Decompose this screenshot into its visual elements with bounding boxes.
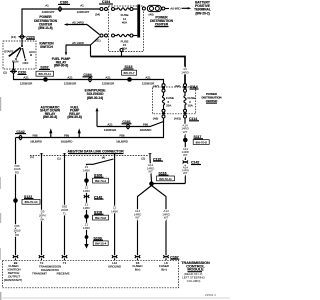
svg-text:MODULE: MODULE (187, 268, 204, 272)
svg-text:(8W-30-8): (8W-30-8) (43, 115, 57, 119)
svg-text:(2): (2) (141, 157, 145, 161)
svg-text:T1: T1 (63, 261, 67, 265)
svg-text:14BK: 14BK (83, 206, 90, 210)
svg-text:14BK: 14BK (83, 189, 90, 193)
svg-text:10A: 10A (188, 104, 193, 108)
svg-text:A5 14RD: A5 14RD (72, 41, 85, 45)
svg-text:(51): (51) (95, 39, 100, 43)
svg-text:WT: WT (164, 216, 169, 220)
svg-text:RECEIVE: RECEIVE (57, 272, 70, 276)
svg-text:(A2): (A2) (175, 84, 181, 88)
svg-text:(2): (2) (3, 70, 7, 74)
svg-text:(A61): (A61) (174, 117, 181, 121)
svg-text:40A: 40A (122, 20, 127, 24)
svg-text:8W-70-8: 8W-70-8 (196, 140, 207, 144)
svg-text:(4): (4) (102, 156, 106, 160)
svg-text:(8W-30-8): (8W-30-8) (54, 64, 68, 68)
svg-text:12RD/WT: 12RD/WT (77, 10, 90, 14)
svg-text:F86: F86 (119, 133, 124, 137)
svg-text:F86: F86 (143, 122, 148, 126)
svg-text:A21: A21 (107, 122, 113, 126)
svg-text:WT: WT (183, 153, 188, 157)
svg-text:(8W-30-14): (8W-30-14) (87, 96, 103, 100)
svg-text:F86: F86 (14, 224, 19, 228)
svg-text:WT: WT (148, 170, 153, 174)
svg-text:WT: WT (183, 130, 188, 134)
svg-text:(A6): (A6) (153, 117, 159, 121)
svg-text:WT: WT (183, 171, 188, 175)
svg-text:A1: A1 (45, 4, 49, 8)
svg-text:TL: TL (63, 211, 67, 215)
svg-text:(8W-20-2): (8W-20-2) (195, 11, 209, 15)
svg-text:GROUND: GROUND (108, 264, 122, 268)
svg-text:(A7): (A7) (153, 84, 159, 88)
svg-text:29504 3: 29504 3 (205, 293, 216, 297)
svg-text:14BK: 14BK (111, 210, 118, 214)
svg-text:(54): (54) (95, 13, 100, 17)
svg-text:8W-70-4: 8W-70-4 (95, 179, 106, 183)
svg-text:A21: A21 (67, 75, 73, 79)
svg-text:25A: 25A (166, 104, 171, 108)
svg-text:8W-70-10: 8W-70-10 (25, 200, 38, 204)
svg-text:A21: A21 (23, 75, 29, 79)
svg-text:(1): (1) (30, 155, 34, 159)
svg-text:ACC: ACC (29, 50, 36, 54)
svg-text:8W-15-4: 8W-15-4 (95, 242, 106, 246)
svg-text:12RD/WT: 12RD/WT (42, 10, 55, 14)
svg-text:CENTER: CENTER (155, 23, 169, 27)
svg-text:OFF: OFF (23, 61, 29, 65)
svg-text:18LB: 18LB (14, 229, 21, 233)
svg-text:WT: WT (135, 216, 140, 220)
svg-text:(40): (40) (149, 12, 154, 16)
svg-text:18LB/RD: 18LB/RD (140, 128, 153, 132)
svg-text:14BK: 14BK (83, 226, 90, 230)
svg-text:COLUMN): COLUMN) (187, 279, 201, 283)
svg-text:SWITCH: SWITCH (40, 45, 53, 49)
svg-text:14BK: 14BK (83, 169, 90, 173)
svg-text:(1): (1) (57, 157, 61, 161)
svg-text:12DB/GR: 12DB/GR (20, 82, 33, 86)
svg-text:12DB/GR: 12DB/GR (64, 82, 77, 86)
svg-text:BK: BK (41, 218, 45, 222)
svg-text:A21: A21 (105, 75, 111, 79)
svg-text:B(+): B(+) (135, 268, 141, 272)
svg-text:(8W-11-8): (8W-11-8) (38, 26, 52, 30)
svg-text:(F1): (F1) (11, 35, 16, 39)
svg-text:14DB/GR: 14DB/GR (104, 128, 117, 132)
svg-text:F86: F86 (32, 133, 37, 137)
svg-text:A21: A21 (145, 75, 151, 79)
svg-text:16LB/RD: 16LB/RD (30, 140, 43, 144)
svg-text:16LB/RD: 16LB/RD (61, 140, 74, 144)
svg-text:CENTER: CENTER (206, 99, 219, 103)
svg-text:8W-70-11: 8W-70-11 (159, 177, 172, 181)
svg-text:16LB/RD: 16LB/RD (116, 140, 129, 144)
svg-text:12DB/GR: 12DB/GR (102, 82, 115, 86)
svg-text:8W-70-8: 8W-70-8 (95, 216, 106, 220)
svg-text:A5 14RD: A5 14RD (72, 20, 85, 24)
svg-text:8W-70-7: 8W-70-7 (123, 71, 134, 75)
svg-text:(RUN/START): (RUN/START) (4, 278, 22, 282)
svg-text:B(+): B(+) (161, 268, 167, 272)
svg-text:8W-70-11: 8W-70-11 (38, 72, 51, 76)
svg-text:TRANSMIT: TRANSMIT (32, 272, 47, 276)
svg-text:14RD: 14RD (181, 70, 189, 74)
svg-text:F86: F86 (64, 133, 69, 137)
svg-text:A1: A1 (80, 4, 84, 8)
svg-text:A0 6RD: A0 6RD (170, 7, 181, 11)
svg-text:(8W-30-8): (8W-30-8) (67, 115, 81, 119)
